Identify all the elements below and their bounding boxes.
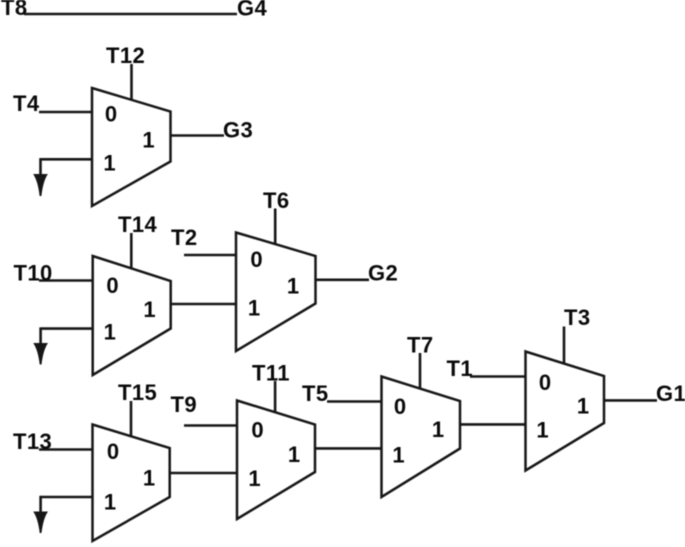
svg-text:1: 1 — [432, 417, 444, 442]
svg-text:G2: G2 — [368, 261, 398, 286]
wire U5 output to U6 pin 1 — [315, 447, 382, 450]
mux U3 (G2 output mux) — [236, 233, 316, 352]
svg-text:T1: T1 — [447, 356, 473, 381]
wire T7 select of U6 — [419, 353, 422, 388]
mux U2 (feeds U3) — [93, 256, 171, 375]
mux U3 outline — [236, 233, 316, 352]
svg-text:1: 1 — [104, 490, 116, 515]
wire vertical of ground arrow at U1 pin 1 — [39, 158, 42, 175]
svg-text:1: 1 — [103, 151, 115, 176]
svg-text:1: 1 — [142, 128, 154, 153]
wire horizontal of ground arrow at U4 pin 1 — [41, 496, 93, 499]
wire T11 select of U5 — [274, 381, 277, 412]
wire T10 input — [39, 279, 93, 282]
wire T12 select of U1 — [130, 64, 133, 100]
svg-text:0: 0 — [106, 273, 118, 298]
svg-text:1: 1 — [248, 296, 260, 321]
mux U4 (feeds U5) — [93, 425, 170, 542]
svg-text:1: 1 — [536, 418, 548, 443]
wire T2 input — [184, 254, 236, 257]
wire T4 input — [39, 111, 92, 114]
svg-text:0: 0 — [394, 394, 406, 419]
arrowhead of ground arrow at U4 pin 1 — [33, 512, 48, 534]
svg-text:0: 0 — [107, 439, 119, 464]
svg-text:G4: G4 — [237, 0, 268, 21]
wire U3 output to G2 — [316, 278, 370, 281]
ground arrow at U1 pin 1 — [33, 158, 92, 196]
svg-text:T8: T8 — [1, 0, 27, 20]
svg-text:1: 1 — [288, 442, 300, 467]
svg-text:T2: T2 — [171, 225, 197, 250]
svg-text:1: 1 — [248, 466, 260, 491]
wire T14 select of U2 — [130, 233, 133, 268]
wire T6 select of U3 — [274, 209, 277, 245]
mux U6 (feeds U7) — [382, 377, 461, 498]
svg-text:1: 1 — [104, 320, 116, 345]
mux U1 (G3 output mux) — [92, 88, 171, 206]
wire vertical of ground arrow at U4 pin 1 — [39, 496, 42, 513]
svg-text:T13: T13 — [13, 429, 52, 454]
mux U5 outline — [237, 401, 315, 520]
svg-text:T10: T10 — [14, 261, 53, 286]
svg-text:T15: T15 — [118, 380, 157, 405]
svg-text:1: 1 — [577, 394, 589, 419]
mux U5 (feeds U6) — [237, 401, 315, 520]
svg-text:T5: T5 — [302, 381, 328, 406]
svg-text:0: 0 — [250, 247, 262, 272]
wire U1 output to G3 — [171, 134, 225, 137]
svg-text:0: 0 — [105, 102, 117, 127]
mux U6 outline — [382, 377, 461, 498]
wire U6 output to U7 pin 1 — [460, 423, 526, 426]
svg-text:G3: G3 — [223, 118, 253, 143]
wire T15 select of U4 — [130, 401, 133, 436]
wire T3 select of U7 — [563, 327, 566, 364]
svg-text:1: 1 — [143, 297, 155, 322]
svg-text:T7: T7 — [407, 333, 433, 358]
mux U4 outline — [93, 425, 170, 542]
wire horizontal of ground arrow at U2 pin 1 — [41, 327, 93, 330]
wire U2 output to U3 pin 1 — [171, 303, 236, 306]
mux U7 outline — [526, 352, 605, 471]
svg-text:0: 0 — [251, 418, 263, 443]
wire horizontal of ground arrow at U1 pin 1 — [41, 158, 93, 161]
ground arrow at U4 pin 1 — [33, 496, 92, 533]
svg-text:1: 1 — [392, 443, 404, 468]
wire U4 output to U5 pin 1 — [170, 472, 237, 475]
svg-text:T14: T14 — [118, 212, 157, 237]
svg-text:T9: T9 — [171, 392, 197, 417]
arrowhead of ground arrow at U2 pin 1 — [33, 343, 48, 365]
wire T1 input — [470, 375, 526, 378]
wire U7 output to G1 — [604, 399, 657, 402]
ground arrow at U2 pin 1 — [33, 327, 92, 364]
svg-text:1: 1 — [143, 466, 155, 491]
svg-text:G1: G1 — [656, 381, 685, 406]
svg-text:0: 0 — [539, 370, 551, 395]
svg-text:T4: T4 — [13, 91, 40, 116]
svg-text:T3: T3 — [564, 305, 590, 330]
wire vertical of ground arrow at U2 pin 1 — [39, 327, 42, 344]
svg-text:T6: T6 — [263, 188, 289, 213]
mux U2 outline — [93, 256, 171, 375]
svg-text:T11: T11 — [252, 361, 290, 386]
svg-text:T12: T12 — [106, 43, 145, 68]
mux U7 (G1 output mux) — [526, 352, 605, 471]
wire T13 input — [39, 448, 93, 451]
wire T8 to G4 — [24, 13, 237, 16]
arrowhead of ground arrow at U1 pin 1 — [33, 174, 48, 196]
wire T9 input — [184, 424, 237, 427]
svg-text:1: 1 — [287, 274, 299, 299]
wire T5 input — [327, 400, 382, 403]
mux U1 outline — [92, 88, 171, 206]
